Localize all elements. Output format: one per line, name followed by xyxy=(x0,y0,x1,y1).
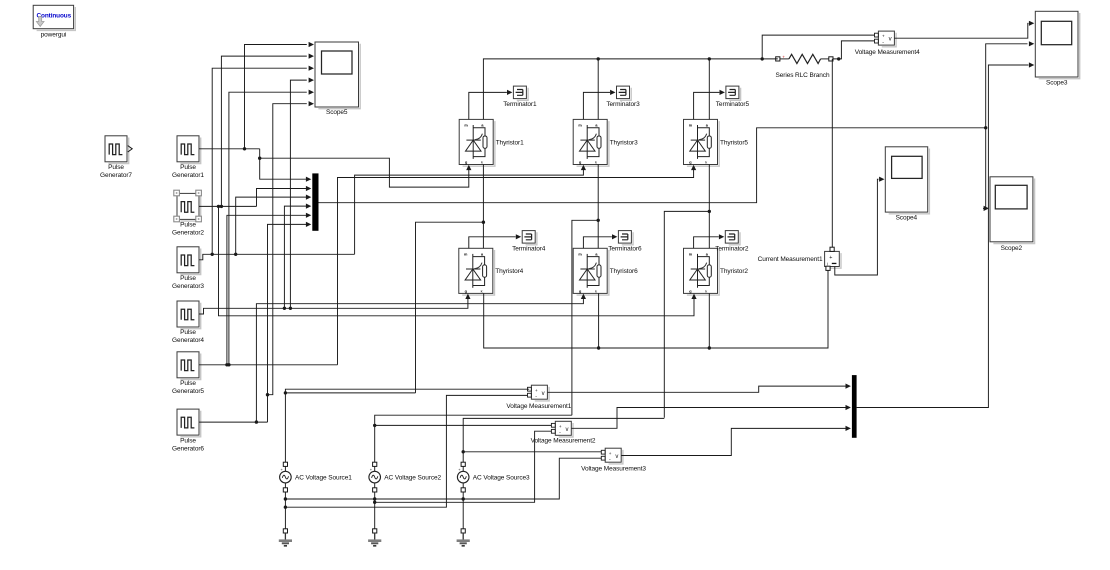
terminator Terminator1 xyxy=(513,86,528,100)
wire PG5 riser to Mux1 in5 xyxy=(227,215,307,364)
svg-text:Pulse: Pulse xyxy=(180,329,196,336)
mux Mux1 (6 pulse signals) xyxy=(312,173,318,230)
wire PG2 branch to Thyristor2 gate xyxy=(219,206,695,315)
wire Source2 tap to VM2 plus xyxy=(375,424,552,426)
terminator Terminator4 xyxy=(522,231,537,245)
wire PG1 output line xyxy=(199,148,260,150)
wire Source1 bottom to ground xyxy=(284,492,286,529)
Pulse Generator7 unconnected output chevron xyxy=(128,146,132,152)
svg-text:Generator4: Generator4 xyxy=(172,337,204,344)
wire PG6 branch to Thyristor6 gate xyxy=(256,299,583,423)
junction Source2 VM2 tap xyxy=(373,424,376,427)
junction VM4 plus tap xyxy=(761,57,764,60)
ground xyxy=(279,529,292,546)
wire neutral bus2 to VM2 minus xyxy=(375,431,552,502)
junction PG4 scope branch xyxy=(289,307,292,310)
wire Thyristor2 cathode down xyxy=(708,293,710,348)
svg-text:powergui: powergui xyxy=(41,32,67,39)
pulse generator Pulse Generator7 xyxy=(105,136,129,164)
scope Scope4 xyxy=(885,147,929,214)
wire Thyristor6 m to Terminator6 xyxy=(583,237,612,249)
mux Mux2 (3 voltage signals) xyxy=(852,375,857,438)
pulse generator Pulse Generator4 xyxy=(177,301,201,329)
svg-text:Thyristor6: Thyristor6 xyxy=(610,268,638,275)
junction T3 anode xyxy=(597,57,600,60)
junction PG4 mux branch xyxy=(283,307,286,310)
wire DC minus bus from Thyristor4 cathode to CM1 xyxy=(484,270,828,348)
svg-text:Terminator3: Terminator3 xyxy=(606,101,640,108)
junction PG6 gate branch xyxy=(255,420,258,423)
svg-text:Terminator1: Terminator1 xyxy=(503,101,537,108)
wire neutral bus1 to VM3 minus xyxy=(285,458,601,499)
wire PG1 branch to Thyristor1 gate xyxy=(260,158,469,187)
wire VM1 output to Mux2 in1 xyxy=(548,386,847,392)
svg-text:Pulse: Pulse xyxy=(180,380,196,387)
wire Mux1 output to Scope3 in2 and Scope2 xyxy=(319,128,986,203)
wire Thyristor4 m to Terminator4 xyxy=(469,237,516,249)
wire neutral bus3 to VM1 minus xyxy=(285,395,527,507)
junction phase A tap xyxy=(482,221,485,224)
terminator Terminator3 xyxy=(617,86,632,100)
svg-text:Voltage Measurement1: Voltage Measurement1 xyxy=(506,403,571,410)
thyristor Thyristor2 xyxy=(684,248,720,295)
svg-text:Generator6: Generator6 xyxy=(172,445,204,452)
thyristor Thyristor4 xyxy=(459,248,495,295)
wire Thyristor3 cathode to Thyristor6 anode xyxy=(597,165,599,249)
svg-text:+: + xyxy=(829,255,832,261)
junction T6 cathode bus xyxy=(597,346,600,349)
svg-text:Pulse: Pulse xyxy=(180,437,196,444)
AC voltage source AC Voltage Source3 xyxy=(457,462,469,492)
AC voltage source AC Voltage Source2 xyxy=(369,462,381,492)
svg-text:Thyristor4: Thyristor4 xyxy=(495,268,523,275)
junction PG6 scope jog xyxy=(266,393,269,396)
wire PG5 riser to Scope5 in5 xyxy=(229,92,307,365)
pulse generator Pulse Generator3 xyxy=(177,247,201,275)
wire Source2 top riser xyxy=(375,415,572,462)
svg-text:Voltage Measurement4: Voltage Measurement4 xyxy=(855,49,920,56)
svg-text:Thyristor2: Thyristor2 xyxy=(720,268,748,275)
wire RLC output to VM4 minus xyxy=(833,41,875,59)
svg-text:AC Voltage Source1: AC Voltage Source1 xyxy=(295,475,352,482)
wire PG4 into Thyristor4 gate arrow xyxy=(465,294,470,299)
svg-text:Scope5: Scope5 xyxy=(326,109,348,116)
voltage measurement VM3 xyxy=(601,448,623,464)
pulse generator Pulse Generator5 xyxy=(177,352,201,380)
svg-text:Pulse: Pulse xyxy=(108,164,124,171)
wire AC top bus to thyristor anodes and RLC xyxy=(483,59,777,120)
junction RLC output xyxy=(837,57,840,60)
powergui block xyxy=(33,5,75,30)
wire PG6 riser to Mux1 in6 xyxy=(268,224,307,422)
wire VM4 output to Scope3 in1 xyxy=(894,23,1028,38)
svg-text:i: i xyxy=(827,261,828,266)
junction T2 cathode bus xyxy=(708,346,711,349)
pulse generator Pulse Generator6 xyxy=(177,409,201,437)
scope Scope3 xyxy=(1035,11,1079,78)
wire Thyristor1 m to Terminator1 xyxy=(469,92,507,119)
pulse generator Pulse Generator2 xyxy=(177,193,201,221)
wire PG4 riser to Scope5 in4 xyxy=(290,80,306,308)
junction Source3 VM3 tap xyxy=(462,450,465,453)
wire Thyristor5 anode riser xyxy=(708,59,710,120)
svg-text:AC Voltage Source2: AC Voltage Source2 xyxy=(384,475,441,482)
svg-text:Terminator2: Terminator2 xyxy=(715,246,749,253)
wire PG6 output line xyxy=(199,421,268,423)
thyristor Thyristor1 xyxy=(459,119,495,166)
svg-text:Generator3: Generator3 xyxy=(172,283,204,290)
junction Source1 phase tap xyxy=(284,391,287,394)
junction PG1-scope branch xyxy=(243,147,246,150)
svg-text:Pulse: Pulse xyxy=(180,275,196,282)
wire PG5 to Thyristor5 gate xyxy=(338,170,694,365)
wire VM3 output to Mux2 in3 xyxy=(621,428,846,455)
terminator Terminator5 xyxy=(726,86,741,100)
wire PG2 up to Mux1 in2 xyxy=(257,189,307,207)
wire PG4 output line xyxy=(199,299,468,315)
wire PG3 to Thyristor3 gate xyxy=(355,170,584,255)
wire phase A branch down xyxy=(416,222,484,393)
wire PG2 riser to Scope5 in2 xyxy=(221,56,306,206)
pulse generator Pulse Generator1 xyxy=(177,136,201,164)
svg-text:Voltage Measurement3: Voltage Measurement3 xyxy=(581,465,646,472)
junction bus1 S2 xyxy=(373,497,376,500)
junction phase C tap xyxy=(708,210,711,213)
wire PG5 output line xyxy=(199,364,338,366)
svg-text:Voltage Measurement2: Voltage Measurement2 xyxy=(531,438,596,445)
AC voltage source AC Voltage Source1 xyxy=(280,462,292,492)
svg-text:+: + xyxy=(782,54,785,59)
voltage measurement VM4 xyxy=(875,31,897,47)
junction PG1-gate branch xyxy=(258,157,261,160)
wire Source2 bottom to ground xyxy=(374,492,376,529)
svg-text:Terminator5: Terminator5 xyxy=(716,101,750,108)
terminator Terminator6 xyxy=(618,231,633,245)
wire Thyristor3 anode riser xyxy=(597,59,599,120)
svg-text:AC Voltage Source3: AC Voltage Source3 xyxy=(473,475,530,482)
resistor Series RLC Branch xyxy=(776,54,833,63)
svg-text:Pulse: Pulse xyxy=(180,222,196,229)
wire Source1 tap to phase A corner xyxy=(285,392,415,394)
wire PG4 riser to Mux1 in4 xyxy=(284,206,306,308)
junction PG5 scope branch xyxy=(227,363,230,366)
ground xyxy=(368,529,381,546)
svg-text:Current Measurement1: Current Measurement1 xyxy=(758,256,823,263)
svg-text:Thyristor5: Thyristor5 xyxy=(720,139,748,146)
wire Thyristor6 cathode down xyxy=(598,293,600,348)
wire Thyristor2 m to Terminator2 xyxy=(694,237,719,249)
svg-text:Generator1: Generator1 xyxy=(172,172,204,179)
wire PG3 output line xyxy=(199,254,355,259)
wire Thyristor3 m to Terminator3 xyxy=(583,92,610,119)
Pulse Generator2 selection handles xyxy=(174,190,180,196)
wire phase C branch down xyxy=(664,211,709,417)
junction bus1 S3 xyxy=(462,497,465,500)
wire Thyristor5 m to Terminator5 xyxy=(694,92,720,119)
wire Source1 top riser xyxy=(285,389,529,462)
wire VM2 output to Mux2 in2 xyxy=(572,408,847,429)
svg-text:Scope3: Scope3 xyxy=(1046,79,1068,86)
junction PG5 mux branch xyxy=(225,363,228,366)
wire junction down to Scope2 input xyxy=(983,128,986,209)
thyristor Thyristor3 xyxy=(573,119,609,166)
junction T5 anode xyxy=(708,57,711,60)
svg-text:Thyristor3: Thyristor3 xyxy=(610,139,638,146)
svg-text:Generator2: Generator2 xyxy=(172,230,204,237)
junction PG2 scope branch xyxy=(220,205,223,208)
wire bus tap to VM4 plus xyxy=(762,35,874,59)
terminator Terminator2 xyxy=(725,231,740,245)
svg-text:Generator7: Generator7 xyxy=(100,172,132,179)
svg-text:Scope2: Scope2 xyxy=(1001,245,1023,252)
svg-text:Terminator6: Terminator6 xyxy=(608,246,642,253)
junction bus1 S1 xyxy=(284,497,287,500)
wire PG3 riser to Scope5 in3 xyxy=(212,68,307,254)
thyristor Thyristor5 xyxy=(684,119,720,166)
wire Source3 bottom to ground xyxy=(462,492,464,529)
wire phase B branch down xyxy=(572,220,598,415)
ground xyxy=(457,529,470,546)
wire PG2 output line xyxy=(199,205,257,207)
voltage measurement VM2 xyxy=(551,421,573,437)
junction phase B tap xyxy=(597,219,600,222)
junction PG3 scope branch xyxy=(211,253,214,256)
svg-text:Scope4: Scope4 xyxy=(896,215,918,222)
junction mux1 output split xyxy=(984,126,987,129)
scope Scope5 xyxy=(315,42,360,109)
scope Scope2 xyxy=(990,177,1035,244)
junction bus3 S1 xyxy=(284,506,287,509)
wire PG1 riser to Scope5 in1 xyxy=(245,45,307,149)
wire Thyristor5 cathode to Thyristor2 anode xyxy=(708,165,710,249)
svg-text:Pulse: Pulse xyxy=(180,164,196,171)
thyristor Thyristor6 xyxy=(573,248,609,295)
wire Source3 top riser xyxy=(463,418,664,462)
svg-text:Terminator4: Terminator4 xyxy=(512,246,546,253)
wire RLC output down to Current Measurement1 xyxy=(831,59,833,247)
wire PG1 down to Mux1 in1 xyxy=(260,149,307,179)
wire PG3 riser to Mux1 in3 xyxy=(236,197,307,254)
junction PG2 gate branch xyxy=(217,205,220,208)
voltage measurement VM1 xyxy=(528,385,550,401)
current measurement CM1 xyxy=(825,247,841,270)
wire junction up to Scope3 in2 xyxy=(986,44,1028,128)
wire CM1 current output to Scope4 xyxy=(835,179,879,275)
svg-text:Series RLC Branch: Series RLC Branch xyxy=(776,72,830,79)
svg-text:Generator5: Generator5 xyxy=(172,388,204,395)
svg-text:Thyristor1: Thyristor1 xyxy=(496,139,524,146)
junction PG3 mux branch xyxy=(234,253,237,256)
wire PG6 jog riser to Scope5 in6 xyxy=(268,104,307,395)
wire Mux2 output to Scope3 in3 xyxy=(857,65,1029,408)
wire Source3 tap to VM3 plus xyxy=(463,451,601,453)
wire Thyristor1 cathode to Thyristor4 anode xyxy=(482,165,484,249)
junction bus2 S2 xyxy=(373,501,376,504)
